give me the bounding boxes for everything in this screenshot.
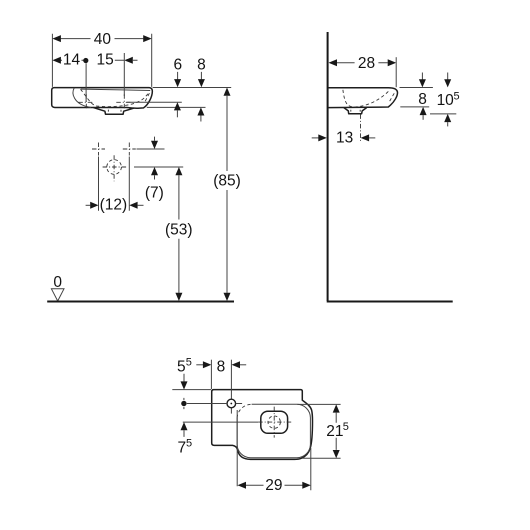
- side bottom reference line: [400, 106, 429, 108]
- dim 8/10.5: down arrows: [422, 73, 447, 80]
- wall line: [327, 32, 329, 301]
- plan drain square: [261, 411, 288, 433]
- dim 28: dimension line: [337, 62, 388, 64]
- dim 40: dimension line: [61, 38, 144, 40]
- drain bottom reference line: [430, 113, 456, 115]
- svg-text:8: 8: [217, 358, 226, 375]
- 6 reference line (tap deck): [127, 101, 182, 103]
- front view drain trap bump: [94, 108, 134, 115]
- front view hidden inner right edge (dashed): [144, 93, 149, 103]
- dim (53): line with arrows: [175, 167, 182, 175]
- svg-text:(12): (12): [100, 197, 128, 214]
- dim 13: right arrow at drain axis: [361, 134, 370, 141]
- dim 14/15: dimension line: [61, 59, 138, 61]
- svg-text:15: 15: [96, 52, 113, 69]
- svg-text:28: 28: [358, 55, 375, 72]
- dim 10.5: up arrow: [444, 114, 451, 122]
- svg-text:14: 14: [63, 52, 81, 69]
- svg-text:(53): (53): [165, 222, 193, 239]
- svg-text:8: 8: [418, 91, 427, 108]
- plan fixing dot: [181, 401, 186, 406]
- front view basin outline: [52, 88, 153, 109]
- dim 14/15: arrows and dot: [52, 57, 61, 64]
- svg-text:10: 10: [437, 92, 455, 109]
- dim 40: arrows: [52, 35, 61, 42]
- drain axis centerline (dash-dot): [360, 114, 362, 142]
- dim 8 (plan): dimension line and arrows: [196, 364, 203, 366]
- plan drain dashed circle: [268, 416, 280, 428]
- fixing hole cross right: [123, 143, 136, 156]
- side view drain trap bump: [344, 108, 366, 114]
- svg-text:29: 29: [265, 477, 282, 494]
- side view hidden inner right edge (dashed): [389, 93, 395, 103]
- front view tap hole cross 2: [116, 94, 132, 110]
- svg-text:8: 8: [197, 56, 206, 73]
- svg-text:7: 7: [177, 439, 186, 456]
- dim 29: arrows: [238, 482, 247, 489]
- top rim reference line: [153, 87, 232, 89]
- dim 8: up arrow: [197, 107, 204, 115]
- plan view inner bowl rim: [237, 404, 310, 457]
- dim 8: up arrow: [420, 107, 427, 115]
- drain crosshair: [103, 155, 127, 181]
- front view tap hole cross 1: [78, 94, 94, 110]
- datum triangle: [51, 289, 64, 301]
- dim 14: drop line from dot to tap cross: [86, 53, 124, 102]
- drain dashed circle: [107, 160, 122, 175]
- dim 6: up arrow: [174, 102, 181, 110]
- fixing row reference line: [137, 148, 165, 150]
- wall plane extension line (plan top): [172, 389, 211, 391]
- dim (85): line with arrows: [224, 88, 231, 96]
- drain center reference line to left: [183, 421, 258, 423]
- dim 28: extension line: [395, 57, 397, 87]
- dim (7): up arrow: [151, 167, 158, 175]
- svg-text:13: 13: [336, 130, 353, 147]
- 8 reference line (basin bottom): [147, 106, 206, 108]
- plan view inner bowl rim hidden corner (dashed): [237, 404, 252, 418]
- front view hidden bowl contour (dashed): [81, 89, 149, 106]
- side view basin profile: [329, 88, 398, 108]
- dim (12): arrows: [86, 204, 91, 206]
- svg-text:6: 6: [173, 56, 182, 73]
- dim 21.5: line with arrows: [333, 404, 340, 412]
- plan drain crosshair: [258, 407, 291, 438]
- ground line right: [327, 301, 453, 303]
- svg-text:5: 5: [454, 91, 460, 103]
- svg-text:5: 5: [343, 421, 349, 433]
- front view inner rim line: [81, 89, 151, 90]
- dim 29: dimension line: [246, 484, 303, 486]
- dim 7.5: up arrow: [181, 422, 188, 430]
- dim 8 (plan): extension line left: [210, 360, 212, 389]
- dim 21.5: bottom reference line: [302, 457, 341, 459]
- dim 40: extension lines: [52, 34, 151, 87]
- ground line left: [47, 301, 234, 303]
- front view drain notch ticks: [108, 110, 121, 112]
- side view drain bump ticks: [351, 110, 360, 112]
- dim 13: left arrow outside wall: [312, 137, 319, 139]
- dim 6/8: down arrows to rim line: [178, 72, 202, 80]
- dim (7): down arrow: [154, 137, 156, 141]
- side view hidden bowl contour (dashed): [343, 90, 390, 107]
- plan tap hole: extension line through: [230, 360, 232, 414]
- svg-text:5: 5: [177, 358, 186, 375]
- dim 5.5: down arrow: [183, 374, 185, 382]
- dim 21.5: top reference line: [297, 403, 340, 405]
- dim 28: arrows: [329, 59, 338, 66]
- front view bowl left visible arc: [73, 88, 91, 108]
- svg-text:(7): (7): [145, 184, 164, 201]
- drain center reference line: [134, 166, 183, 168]
- svg-text:(85): (85): [213, 173, 241, 190]
- fixing hole cross left: [92, 143, 105, 156]
- svg-text:21: 21: [326, 423, 343, 440]
- plan view outline: [212, 390, 313, 460]
- side top rim reference line: [400, 87, 433, 89]
- svg-text:40: 40: [94, 31, 112, 48]
- svg-text:5: 5: [186, 438, 192, 450]
- dim (12): extension lines from fixing holes: [99, 157, 130, 211]
- plan tap hole circle: [227, 399, 236, 408]
- plan tap hole crosshair horizontal / fixing dot line: [187, 403, 242, 405]
- svg-text:5: 5: [186, 357, 192, 369]
- dim 29: extension lines: [237, 410, 311, 490]
